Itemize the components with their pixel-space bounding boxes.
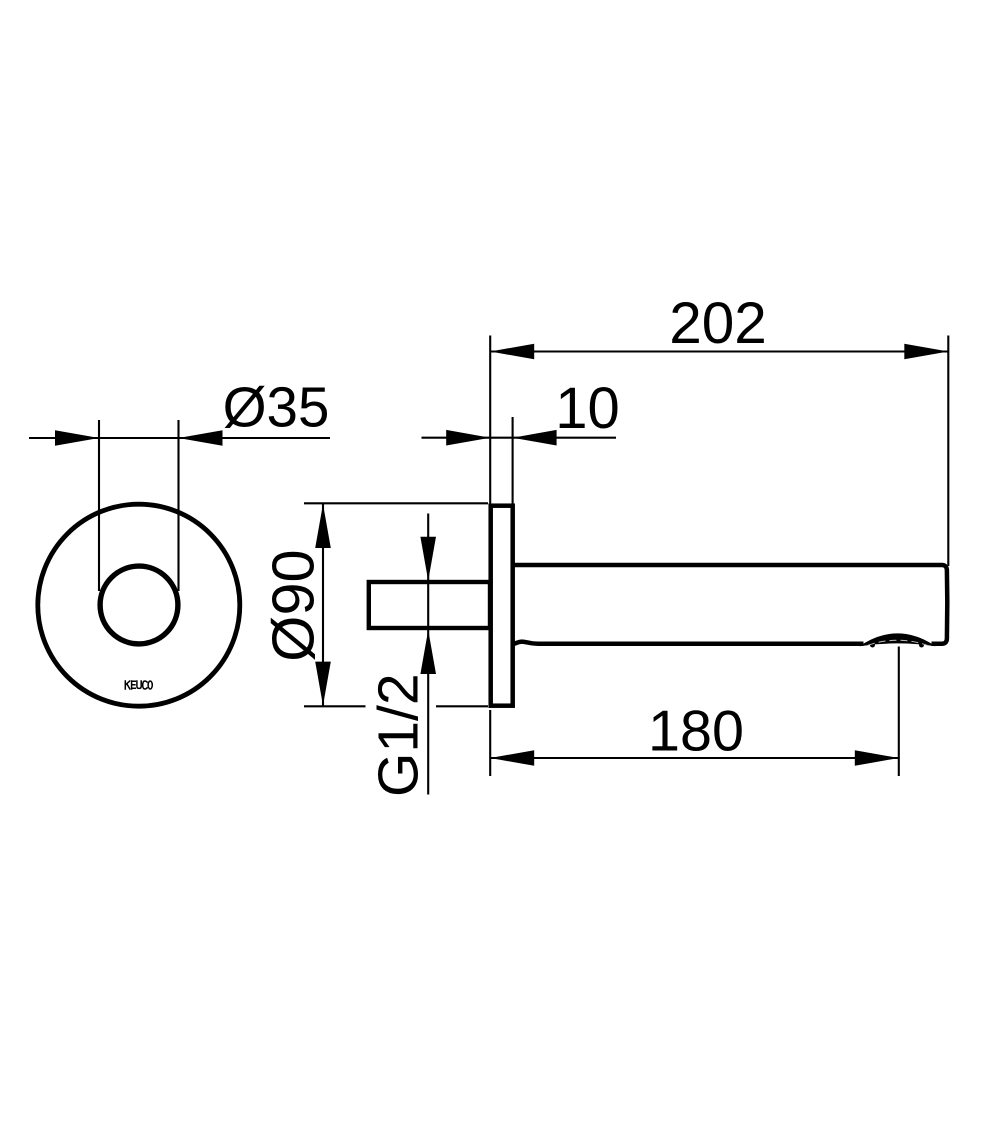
dimension Ø90: top extension line xyxy=(304,502,488,504)
dimension 202: dimension line xyxy=(490,350,948,352)
dimension Ø90: bottom extension line (broken by G1/2 text) xyxy=(304,705,366,707)
dimension Ø90: bottom arrowhead xyxy=(315,662,331,706)
dimension 180: extension line left xyxy=(489,710,491,776)
dimension 202: left arrowhead xyxy=(490,344,534,360)
aerator ring nub left xyxy=(870,643,875,648)
svg-text:Ø35: Ø35 xyxy=(223,376,330,439)
dimension 10: right arrowhead (outside) xyxy=(513,430,557,446)
spout tube bottom edge xyxy=(513,642,864,644)
aerator ring nub right xyxy=(919,643,924,648)
dimension 10: extension line right xyxy=(512,417,514,506)
aerator outlet arc xyxy=(860,633,936,646)
outer circle (escutcheon Ø90) xyxy=(38,504,240,706)
spout tube outline xyxy=(513,565,947,644)
inner circle (spout base Ø35) xyxy=(100,566,178,644)
wall plate (escutcheon side) xyxy=(491,506,513,706)
dimension G1/2: lower arrowhead (points up to connector bottom) xyxy=(420,630,436,674)
dimension Ø90: top arrowhead xyxy=(315,504,331,548)
dimension Ø35: left arrowhead xyxy=(55,430,99,446)
dimension 180: right arrowhead xyxy=(855,750,899,766)
dimension 10: dimension line xyxy=(422,437,617,439)
dimension Ø35: right arrowhead xyxy=(179,430,223,446)
dimension 180: left arrowhead xyxy=(490,750,534,766)
dimension 202: extension line right xyxy=(947,336,949,567)
dimension 180: dimension line xyxy=(490,757,899,759)
KEUCO logo xyxy=(125,681,152,689)
dimension Ø35: dimension line xyxy=(29,437,330,439)
svg-text:G1/2: G1/2 xyxy=(367,673,431,797)
dimension Ø35: extension line right xyxy=(177,420,179,591)
svg-text:10: 10 xyxy=(555,376,620,441)
dimension 202: extension line left xyxy=(489,336,491,507)
svg-text:Ø90: Ø90 xyxy=(260,549,327,661)
dimension G1/2: upper arrowhead (points down to connector top) xyxy=(420,537,436,581)
dimension Ø35: extension line left xyxy=(98,420,100,591)
dimension Ø90: dimension line xyxy=(322,504,324,706)
dimension 10: left arrowhead (outside) xyxy=(446,430,490,446)
dimension 202: right arrowhead xyxy=(904,344,948,360)
dimension 180: extension line right xyxy=(898,647,900,777)
dimension G1/2: dimension line xyxy=(427,514,429,795)
svg-text:202: 202 xyxy=(669,291,767,356)
svg-text:180: 180 xyxy=(648,700,744,764)
G1/2 threaded connector xyxy=(369,582,490,628)
aerator inner arc xyxy=(868,640,927,645)
